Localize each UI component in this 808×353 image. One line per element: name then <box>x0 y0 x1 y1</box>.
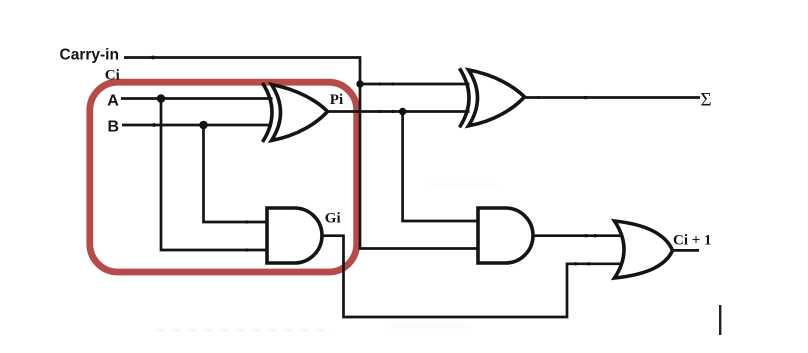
svg-text:A: A <box>107 92 119 109</box>
svg-text:Pi: Pi <box>330 92 343 108</box>
svg-text:Σ: Σ <box>701 89 712 110</box>
svg-text:Ci + 1: Ci + 1 <box>673 232 712 248</box>
svg-text:Gi: Gi <box>325 211 341 227</box>
svg-text:Carry-in: Carry-in <box>60 47 119 64</box>
svg-text:B: B <box>108 119 120 136</box>
svg-text:Ci: Ci <box>105 67 120 83</box>
